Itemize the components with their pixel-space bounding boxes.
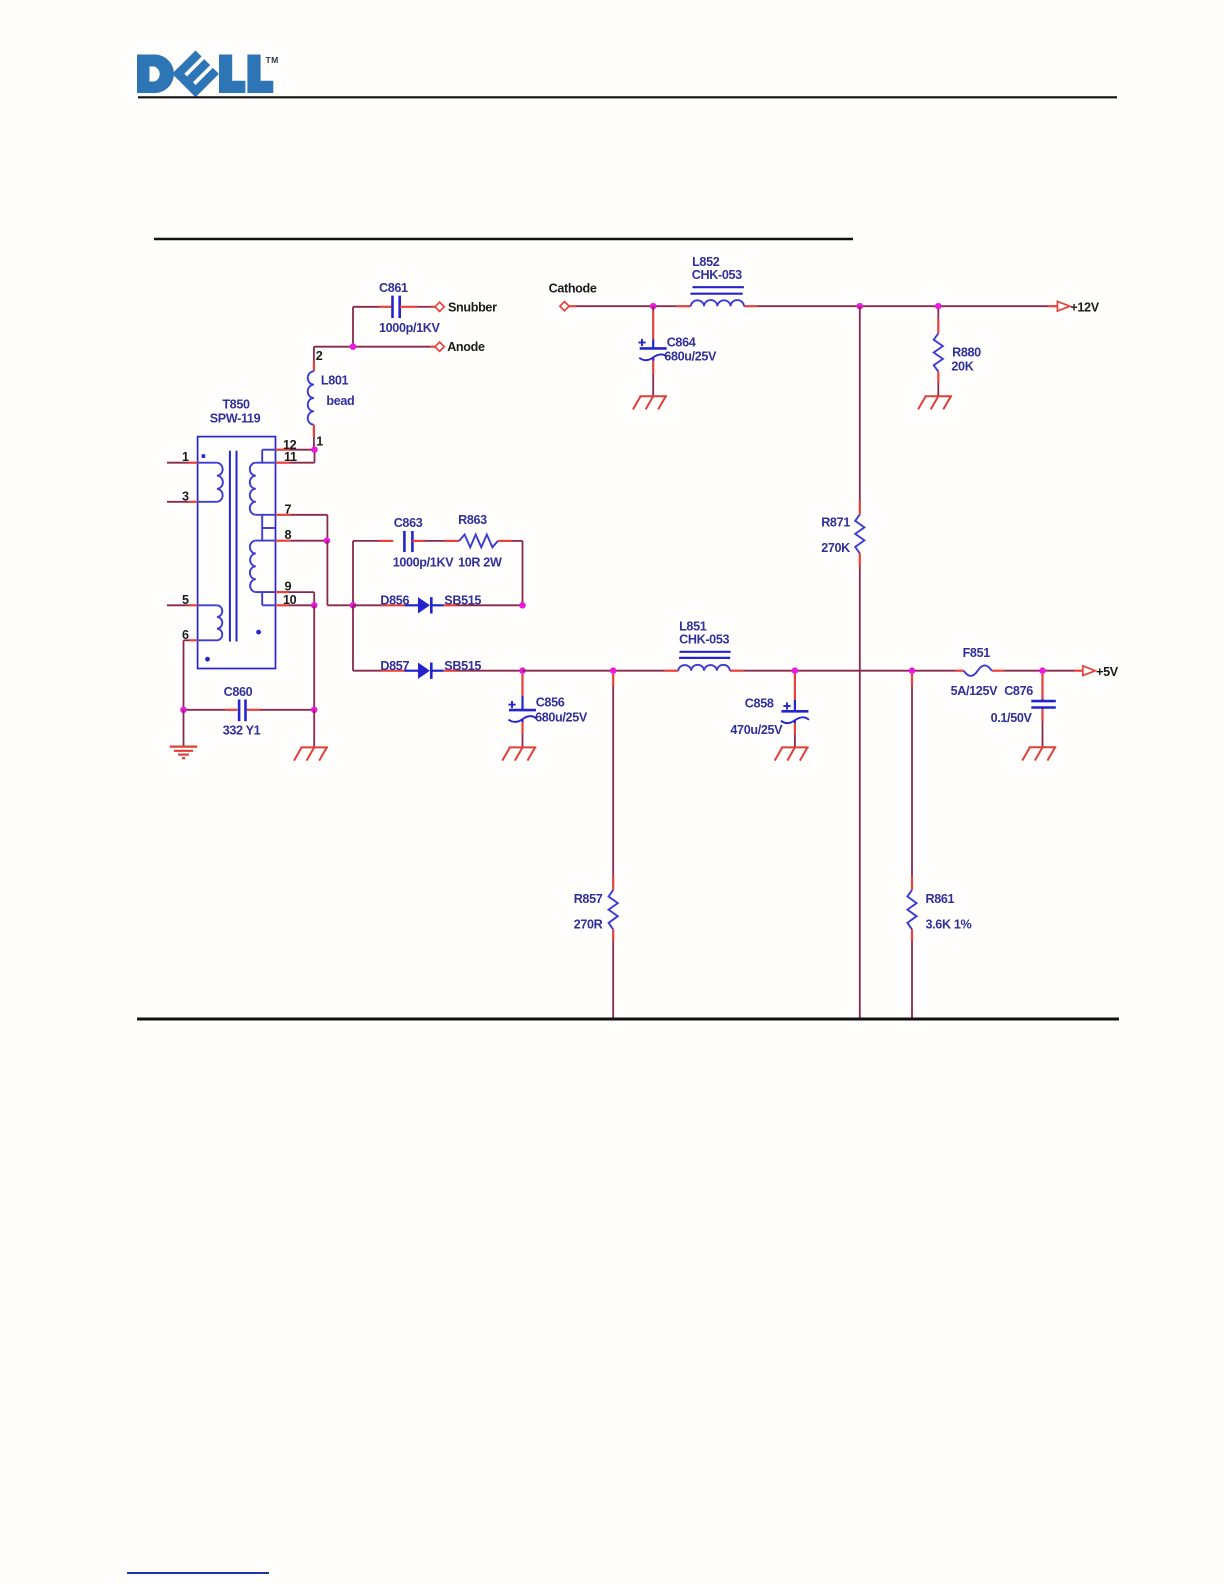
schematic bottom border <box>137 1018 1119 1021</box>
svg-text:6: 6 <box>182 628 189 642</box>
svg-text:C864: C864 <box>667 336 696 350</box>
earth ground <box>170 745 198 747</box>
junction D857 output <box>519 667 526 674</box>
wire C860 row <box>184 709 226 711</box>
svg-text:5: 5 <box>182 593 189 607</box>
wire snubber branch riser <box>352 307 354 346</box>
wire D857 to bus <box>444 670 457 672</box>
svg-text:Anode: Anode <box>447 340 485 354</box>
wire snubber row left <box>353 306 379 308</box>
svg-text:3.6K 1%: 3.6K 1% <box>926 918 972 932</box>
capacitor C864 <box>652 306 654 311</box>
svg-text:R863: R863 <box>458 513 487 527</box>
svg-text:D857: D857 <box>380 659 409 673</box>
svg-text:2: 2 <box>316 349 323 363</box>
svg-text:270R: 270R <box>574 918 603 932</box>
wire C863 branch bracket <box>352 541 354 605</box>
ground under C864 <box>639 395 667 397</box>
wire L801 bottom to pin12 node <box>313 425 315 437</box>
terminal +5V arrow <box>1083 666 1096 676</box>
terminal Cathode <box>560 302 569 311</box>
svg-text:8: 8 <box>285 528 292 542</box>
wire anode row <box>314 346 430 348</box>
wire L801 top to anode row <box>313 347 315 361</box>
svg-text:680u/25V: 680u/25V <box>664 349 717 363</box>
wire pin 8 lead <box>276 540 292 542</box>
inductor L851 <box>678 665 730 671</box>
wire pin7/8 to D-bridge <box>326 541 328 606</box>
svg-text:D856: D856 <box>380 594 409 608</box>
header rule <box>138 96 1117 98</box>
wire pin 7 lead <box>276 514 292 516</box>
ground under C858 <box>781 746 809 748</box>
junction R880 tap <box>935 303 942 310</box>
svg-text:C860: C860 <box>224 685 253 699</box>
svg-text:bead: bead <box>326 394 354 408</box>
capacitor C858 <box>792 667 799 674</box>
svg-text:C876: C876 <box>1004 684 1033 698</box>
wire D857 row <box>353 670 381 672</box>
svg-text:R857: R857 <box>574 892 603 906</box>
svg-text:5A/125V: 5A/125V <box>951 684 999 698</box>
svg-text:11: 11 <box>284 450 297 464</box>
svg-text:L852: L852 <box>692 255 720 269</box>
svg-text:470u/25V: 470u/25V <box>730 723 783 737</box>
wire pin 9 lead <box>276 591 290 593</box>
svg-text:C863: C863 <box>394 516 423 530</box>
diode D857 SB515 <box>405 670 419 672</box>
svg-text:CHK-053: CHK-053 <box>679 632 729 646</box>
junction C860 right <box>311 707 318 714</box>
svg-text:1: 1 <box>182 450 189 464</box>
junction C864 tap <box>650 303 657 310</box>
junction pins 9-10 <box>311 602 318 609</box>
svg-text:R871: R871 <box>821 515 850 529</box>
svg-text:F851: F851 <box>963 646 991 660</box>
terminal Snubber <box>435 302 444 311</box>
wire pin 12 lead <box>276 449 291 451</box>
resistor R871 bus <box>857 303 864 310</box>
svg-text:332 Y1: 332 Y1 <box>223 723 261 737</box>
ground under C876 <box>1029 746 1057 748</box>
footer rule <box>127 1572 269 1574</box>
svg-text:9: 9 <box>285 580 292 594</box>
wire D-bridge left drop <box>352 605 354 670</box>
junction D856 output <box>519 602 526 609</box>
resistor R861 <box>909 667 916 674</box>
wire to chassis ground <box>313 710 315 748</box>
svg-text:+12V: +12V <box>1070 300 1099 314</box>
svg-text:0.1/50V: 0.1/50V <box>991 711 1033 725</box>
svg-text:TM: TM <box>266 55 279 65</box>
svg-text:T850: T850 <box>222 398 250 412</box>
svg-text:20K: 20K <box>951 360 973 374</box>
svg-text:+5V: +5V <box>1096 665 1119 679</box>
junction pin12 / L801 <box>311 446 318 453</box>
svg-text:1000p/1KV: 1000p/1KV <box>379 321 441 335</box>
inductor L801 <box>308 371 314 424</box>
resistor R863 <box>459 535 498 548</box>
resistor R880 <box>937 306 939 319</box>
wire D856 row <box>353 604 381 606</box>
wire +12V rail <box>569 305 576 307</box>
wire D856 to bus <box>444 604 457 606</box>
wire pin 11 lead <box>276 462 291 464</box>
wire to earth ground <box>183 710 185 747</box>
svg-text:10R 2W: 10R 2W <box>458 556 502 570</box>
svg-text:R880: R880 <box>952 346 981 360</box>
svg-text:1000p/1KV: 1000p/1KV <box>393 556 455 570</box>
wire pin 1 stub <box>167 462 189 464</box>
svg-text:C856: C856 <box>536 696 565 710</box>
capacitor C860 <box>238 700 241 722</box>
schematic top border <box>154 238 853 241</box>
junction anode / C861 <box>350 343 357 350</box>
wire C863 to R863 <box>412 540 425 542</box>
ground under C860 right <box>300 746 328 748</box>
wire pin 6 to C860 <box>184 639 190 641</box>
ground under C856 <box>509 746 537 748</box>
svg-text:R861: R861 <box>926 892 955 906</box>
svg-text:Cathode: Cathode <box>549 282 597 296</box>
capacitor C861 <box>391 296 394 319</box>
junction C860 left <box>180 707 187 714</box>
transformer T850 SPW-119 <box>198 437 276 669</box>
wire R863 to right bus <box>498 540 512 542</box>
capacitor C856 <box>521 674 523 696</box>
junction pins 7-8 <box>324 537 331 544</box>
svg-text:7: 7 <box>285 502 292 516</box>
fuse F851 <box>964 665 992 676</box>
svg-text:SPW-119: SPW-119 <box>210 411 261 425</box>
wire pin 5 stub <box>167 604 189 606</box>
terminal +12V arrow <box>1057 301 1070 311</box>
wire pin 3 stub <box>167 501 189 503</box>
svg-text:10: 10 <box>283 593 297 607</box>
inductor L852 <box>691 300 744 306</box>
svg-text:L801: L801 <box>321 373 349 387</box>
wire pin 10 lead <box>276 604 290 606</box>
junction D856 feed <box>350 602 357 609</box>
svg-text:1: 1 <box>316 435 323 449</box>
capacitor C863 <box>403 531 406 552</box>
svg-text:C858: C858 <box>745 697 774 711</box>
terminal Anode <box>435 342 444 351</box>
svg-text:680u/25V: 680u/25V <box>535 711 588 725</box>
svg-text:Snubber: Snubber <box>448 301 497 315</box>
wire snubber row right <box>400 306 418 308</box>
svg-text:270K: 270K <box>821 541 850 555</box>
wire pin10 node to C860 <box>313 605 315 710</box>
Dell logo <box>137 50 279 97</box>
diode D856 SB515 <box>405 604 419 606</box>
wire +5V rail <box>523 670 665 672</box>
svg-text:CHK-053: CHK-053 <box>692 268 742 282</box>
svg-text:3: 3 <box>182 489 189 503</box>
ground under R880 <box>925 395 953 397</box>
resistor R857 <box>610 667 617 674</box>
capacitor C876 <box>1039 667 1046 674</box>
svg-text:C861: C861 <box>379 281 408 295</box>
